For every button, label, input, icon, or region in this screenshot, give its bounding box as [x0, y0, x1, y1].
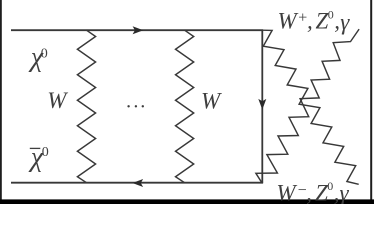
boson zigzag W-/Z0/gamma (bottom vertex to top right)	[256, 29, 359, 183]
boson zigzag W+/Z0/gamma (top vertex to bottom right)	[262, 30, 358, 184]
svg-text:0: 0	[328, 7, 334, 21]
svg-text:0: 0	[327, 179, 333, 193]
svg-text:,: ,	[334, 9, 340, 34]
svg-text:0: 0	[42, 145, 49, 160]
ellipsis dots	[127, 105, 129, 107]
W boson zigzag W2 (middle)	[176, 30, 194, 183]
svg-text:0: 0	[41, 46, 48, 61]
svg-text:,: ,	[307, 9, 313, 34]
svg-text:W: W	[201, 88, 222, 113]
W boson zigzag W1 (left)	[77, 30, 95, 183]
arrow on bottom fermion line (leftward)	[132, 179, 143, 187]
svg-text:−: −	[298, 182, 307, 199]
svg-text:γ: γ	[340, 180, 350, 204]
svg-text:,: ,	[306, 180, 312, 204]
arrow on top fermion line (rightward)	[133, 26, 144, 34]
left page border	[0, 0, 2, 204]
svg-text:Z: Z	[315, 180, 328, 204]
fermion line chi0 (top, left to right)	[11, 29, 263, 31]
internal fermion line (right vertical, downward)	[261, 30, 263, 183]
svg-text:+: +	[298, 10, 307, 27]
svg-text:W: W	[276, 180, 297, 204]
svg-text:W: W	[47, 88, 68, 113]
svg-text:W: W	[278, 9, 299, 34]
fermion line chi0bar (bottom, right to left)	[11, 182, 263, 184]
svg-text:Z: Z	[316, 8, 329, 33]
right page border	[370, 0, 372, 204]
bottom black bar	[0, 199, 374, 204]
arrow on vertical fermion line (downward)	[258, 99, 266, 110]
svg-text:γ: γ	[340, 9, 350, 34]
